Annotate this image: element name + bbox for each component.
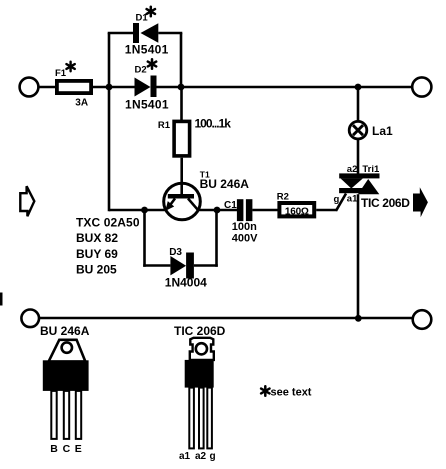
package TIC206D tab hole bbox=[196, 343, 207, 354]
svg-text:a1: a1 bbox=[179, 451, 191, 462]
asterisk of F1 bbox=[66, 62, 74, 72]
package TIC206D leg g bbox=[207, 388, 212, 449]
capacitor C1 bbox=[237, 199, 244, 221]
wire D1 branch right bbox=[158, 32, 182, 35]
asterisk of D1 bbox=[147, 7, 155, 17]
package BU246A leg C bbox=[64, 391, 69, 439]
svg-text:160Ω: 160Ω bbox=[285, 207, 309, 218]
wire left riser of D1 loop bbox=[108, 33, 111, 88]
svg-text:see text: see text bbox=[271, 387, 312, 399]
wire D2 to node B bbox=[157, 86, 182, 89]
svg-text:100n: 100n bbox=[232, 221, 257, 233]
wire node C down to lamp bbox=[357, 87, 360, 123]
node E junction dot bbox=[214, 207, 221, 214]
package TIC206D body bbox=[185, 360, 214, 388]
wire R1 to T1 base bbox=[180, 158, 183, 195]
wire node A to D2 bbox=[109, 86, 135, 89]
resistor R2 bbox=[279, 203, 314, 216]
svg-text:E: E bbox=[75, 443, 82, 455]
terminal top-left bbox=[20, 78, 39, 97]
diode D1 bbox=[133, 23, 139, 43]
wire terminal to fuse bbox=[38, 86, 55, 89]
diode D2 bbox=[135, 78, 151, 97]
resistor R1 bbox=[174, 121, 190, 155]
wire D3 right riser bbox=[215, 209, 218, 267]
package BU246A body bbox=[43, 360, 89, 391]
wire D3 left horizontal bbox=[143, 264, 170, 267]
svg-text:D2: D2 bbox=[135, 65, 147, 76]
svg-text:a2: a2 bbox=[195, 451, 207, 462]
svg-text:1N5401: 1N5401 bbox=[125, 43, 169, 57]
svg-text:Tri1: Tri1 bbox=[362, 164, 380, 175]
svg-text:BU 246A: BU 246A bbox=[200, 177, 250, 191]
arrow mains input (hollow) bbox=[20, 186, 34, 216]
svg-text:R1: R1 bbox=[158, 120, 171, 131]
wire node C to right terminal bbox=[358, 86, 412, 89]
terminal bottom-right bbox=[413, 310, 432, 329]
wire mid rail to T1 emitter bbox=[109, 209, 166, 212]
node D junction dot bbox=[141, 207, 148, 214]
svg-text:1N5401: 1N5401 bbox=[125, 98, 169, 112]
arrow output (filled) bbox=[413, 187, 428, 217]
wire lamp to triac bbox=[357, 138, 360, 176]
svg-text:F1: F1 bbox=[55, 68, 67, 79]
svg-text:400V: 400V bbox=[232, 233, 258, 245]
wire node B to node C bbox=[181, 86, 358, 89]
wire D1 branch left bbox=[108, 32, 133, 35]
wire node E to C1 bbox=[217, 209, 238, 212]
svg-text:TXC 02A50: TXC 02A50 bbox=[76, 215, 140, 229]
asterisk of see-text note bbox=[261, 386, 269, 396]
wire fuse to node A bbox=[91, 86, 110, 89]
node F junction dot bbox=[355, 315, 362, 322]
svg-text:R2: R2 bbox=[277, 192, 289, 203]
package TIC206D tab bbox=[190, 338, 214, 360]
svg-text:B: B bbox=[50, 443, 58, 455]
svg-text:D3: D3 bbox=[169, 247, 182, 258]
bottom rail wire bbox=[39, 317, 413, 320]
svg-text:100...1k: 100...1k bbox=[195, 117, 232, 131]
wire T1 collector to node E bbox=[199, 209, 217, 212]
package TIC206D leg a2 bbox=[199, 388, 204, 449]
svg-text:TIC 206D: TIC 206D bbox=[174, 324, 226, 338]
wire C1 to R2 bbox=[252, 209, 279, 212]
package TIC206D leg a1 bbox=[189, 388, 194, 449]
svg-text:C: C bbox=[63, 443, 71, 455]
node A junction dot bbox=[106, 84, 113, 91]
svg-text:3A: 3A bbox=[75, 98, 88, 109]
wire gate diagonal bbox=[336, 194, 346, 211]
wire left riser mid bbox=[108, 86, 111, 211]
svg-text:BU 246A: BU 246A bbox=[40, 324, 90, 338]
svg-text:BUY 69: BUY 69 bbox=[76, 247, 118, 261]
fuse F1 bbox=[57, 81, 91, 93]
wire D3 right horizontal bbox=[194, 264, 218, 267]
asterisk of D2 bbox=[148, 59, 156, 69]
transistor T1 bbox=[164, 183, 201, 220]
wire R2 to gate bend bbox=[316, 209, 337, 212]
package BU246A leg E bbox=[76, 391, 81, 439]
svg-text:BU 205: BU 205 bbox=[76, 263, 117, 277]
wire D3 left riser bbox=[143, 210, 146, 267]
wire triac to bottom rail bbox=[357, 194, 360, 318]
triac Tri1 bbox=[339, 173, 379, 178]
diode D3 bbox=[170, 256, 186, 275]
wire node B down to R1 bbox=[180, 87, 183, 121]
node C junction dot bbox=[355, 84, 362, 91]
svg-text:BUX 82: BUX 82 bbox=[76, 231, 118, 245]
svg-text:a1: a1 bbox=[347, 194, 358, 205]
package BU246A leg B bbox=[51, 391, 56, 439]
terminal top-right bbox=[412, 77, 431, 96]
wire right riser of D1 loop bbox=[180, 33, 183, 88]
svg-text:C1: C1 bbox=[224, 200, 237, 211]
svg-text:a2: a2 bbox=[347, 164, 358, 175]
node B junction dot bbox=[178, 84, 185, 91]
svg-text:La1: La1 bbox=[372, 124, 393, 138]
scan artifact left edge bbox=[0, 293, 3, 306]
svg-text:g: g bbox=[209, 451, 215, 462]
package BU246A tab bbox=[49, 340, 86, 362]
svg-text:1N4004: 1N4004 bbox=[165, 276, 207, 290]
lamp La1 bbox=[349, 121, 367, 139]
package BU246A tab hole bbox=[62, 342, 72, 352]
svg-text:g: g bbox=[334, 194, 340, 205]
terminal bottom-left bbox=[21, 310, 39, 328]
svg-text:TIC 206D: TIC 206D bbox=[361, 196, 410, 210]
